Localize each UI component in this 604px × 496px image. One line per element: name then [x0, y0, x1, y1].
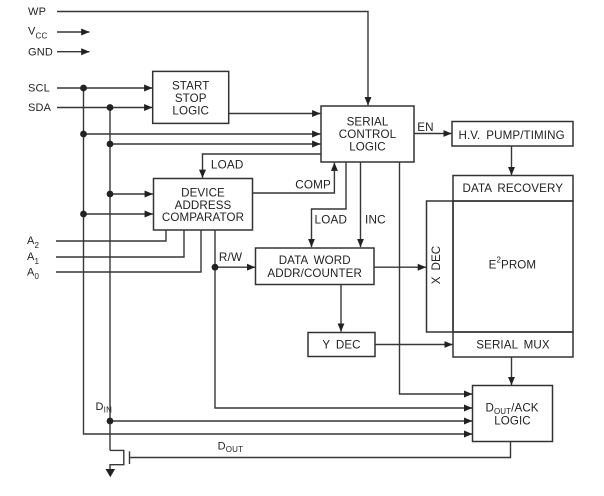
wire hv pump to data recovery [511, 146, 513, 175]
junction dot SDA input [107, 104, 114, 111]
e2prom memory array U7 [453, 201, 573, 332]
wire data word counter to x dec [374, 266, 426, 268]
svg-text:ADDR/COUNTER: ADDR/COUNTER [267, 267, 362, 280]
Vcc arrow [57, 31, 90, 33]
svg-text:X DEC: X DEC [430, 246, 443, 285]
COMP wire comparator to serial control [253, 163, 335, 193]
svg-text:SERIAL MUX: SERIAL MUX [476, 339, 550, 352]
x dec U6 [427, 201, 454, 332]
LOAD wire serial control to comparator [203, 154, 322, 178]
WP wire [57, 12, 368, 106]
svg-text:CONTROL: CONTROL [339, 128, 397, 141]
svg-text:START: START [172, 80, 209, 93]
svg-text:SCL: SCL [28, 83, 50, 95]
svg-text:R/W: R/W [219, 251, 242, 264]
Dout wire dout/ack logic to transistor gate [130, 442, 510, 458]
wire data word counter to y dec [340, 285, 342, 332]
svg-text:INC: INC [365, 214, 386, 227]
svg-text:COMP: COMP [295, 179, 331, 192]
svg-text:LOGIC: LOGIC [172, 105, 209, 118]
svg-text:Y DEC: Y DEC [322, 339, 360, 352]
junction dot SCL rail y214 [80, 211, 87, 218]
wire start stop logic to serial control logic [229, 113, 321, 115]
svg-text:SDA: SDA [28, 102, 52, 114]
svg-text:DATA RECOVERY: DATA RECOVERY [463, 182, 564, 195]
SDA wire [57, 107, 152, 109]
SCL wire [57, 87, 152, 89]
wire SDA to serial control logic [110, 143, 320, 145]
serial mux U8 [453, 332, 573, 357]
svg-text:LOGIC: LOGIC [349, 141, 386, 154]
junction dot Din [107, 418, 114, 425]
A2 wire [56, 230, 166, 241]
svg-text:STOP: STOP [175, 92, 207, 105]
A0 wire [56, 230, 201, 272]
output transistor Q1 channel [110, 450, 124, 470]
svg-text:WP: WP [28, 6, 46, 18]
junction dot SDA rail y144 [107, 141, 114, 148]
GND arrow [57, 51, 90, 53]
LOAD wire serial control to data word counter [312, 162, 347, 247]
SDA rail down to output transistor [109, 108, 111, 451]
serial control logic U3 [321, 106, 414, 162]
svg-text:EN: EN [417, 121, 434, 134]
output transistor Q1 gate bar [129, 451, 131, 464]
data word addr/counter U9 [256, 248, 375, 285]
svg-text:LOAD: LOAD [211, 159, 244, 172]
SCL rail down to Dout/Ack logic [84, 88, 473, 434]
EN wire serial control to hv pump [414, 133, 452, 135]
junction dot SCL rail y134 [80, 131, 87, 138]
svg-text:LOAD: LOAD [315, 214, 348, 227]
data recovery U5 [453, 176, 573, 202]
junction dot SDA rail y194 [107, 191, 114, 198]
R/W wire comparator to dout/ack logic [215, 230, 472, 408]
ground arrow [106, 469, 116, 477]
device address comparator U2 [154, 179, 253, 231]
INC wire serial control to data word counter [360, 162, 362, 247]
svg-text:DATA WORD: DATA WORD [279, 254, 351, 267]
wire SCL to device address comparator [84, 213, 153, 215]
wire serial mux to dout/ack logic [511, 357, 513, 385]
h.v. pump/timing U4 [452, 122, 573, 147]
svg-text:LOGIC: LOGIC [494, 415, 531, 428]
wire y dec to serial mux [375, 344, 453, 346]
dout/ack logic U11 [473, 386, 553, 442]
svg-text:SERIAL: SERIAL [347, 116, 389, 129]
junction dot R/W [212, 264, 219, 271]
svg-text:E2PROM: E2PROM [489, 256, 537, 272]
svg-text:COMPARATOR: COMPARATOR [162, 211, 244, 224]
A1 wire [56, 230, 184, 257]
y dec U10 [308, 333, 375, 357]
junction dot SCL input [80, 85, 87, 92]
wire SDA to device address comparator [110, 193, 153, 195]
wire serial control to dout/ack logic [400, 162, 473, 394]
start stop logic U1 [153, 71, 229, 123]
svg-text:GND: GND [28, 46, 53, 58]
Din wire to dout/ack logic [110, 420, 472, 422]
svg-text:ADDRESS: ADDRESS [175, 199, 232, 212]
svg-text:DEVICE: DEVICE [181, 187, 225, 200]
wire SCL to serial control logic [84, 133, 321, 135]
svg-text:H.V. PUMP/TIMING: H.V. PUMP/TIMING [459, 129, 565, 142]
R/W branch to data word addr/counter [215, 266, 255, 268]
